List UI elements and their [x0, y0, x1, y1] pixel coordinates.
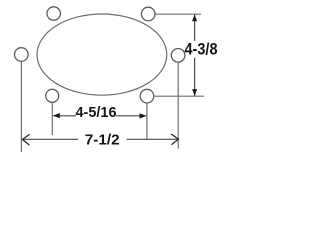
mounting hole left	[14, 48, 28, 62]
mounting hole top-right	[141, 7, 155, 21]
extension line from top-right hole	[155, 13, 201, 15]
open arrowhead right (7-1/2)	[172, 134, 179, 144]
dimension line 7-1/2 right segment	[127, 138, 179, 140]
arrowhead right (4-5/16)	[140, 113, 147, 118]
extension line from bottom-right hole (vertical)	[146, 103, 148, 139]
arrowhead left (4-5/16)	[53, 113, 60, 118]
dimension line 7-1/2 left segment	[22, 138, 78, 140]
svg-text:4-5/16: 4-5/16	[76, 104, 117, 121]
svg-text:4-3/8: 4-3/8	[185, 41, 218, 59]
open arrowhead left (7-1/2)	[22, 135, 29, 145]
svg-text:7-1/2: 7-1/2	[85, 132, 120, 148]
dimension line 4-3/8 upper segment	[194, 14, 196, 40]
arrowhead down (4-3/8 bottom)	[192, 89, 197, 96]
extension line from left hole (vertical)	[20, 62, 22, 153]
extension line from bottom-right hole (horizontal)	[154, 95, 204, 97]
arrowhead up (4-3/8 top)	[192, 14, 197, 21]
extension line from right hole (vertical)	[177, 62, 179, 148]
mounting hole bottom-left	[46, 89, 59, 102]
sink cutout ellipse	[37, 14, 167, 95]
dimension line 4-3/8 lower segment	[194, 58, 196, 96]
dimension line 4-5/16 left segment	[53, 115, 76, 117]
mounting hole right	[171, 49, 185, 63]
mounting hole top-left	[47, 7, 60, 20]
mounting hole bottom-right	[140, 89, 154, 103]
dimension line 4-5/16 right segment	[116, 115, 146, 117]
extension line from bottom-left hole (vertical)	[51, 102, 53, 135]
